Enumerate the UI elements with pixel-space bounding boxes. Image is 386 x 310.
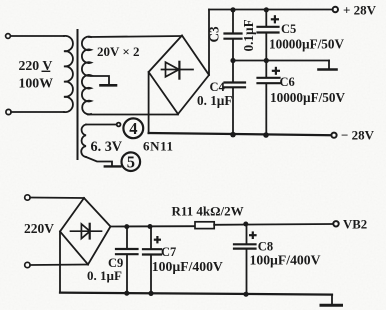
svg-text:C5: C5 (281, 22, 296, 36)
svg-text:100W: 100W (19, 76, 54, 91)
wire bridge right corner to +28V rail (208, 10, 210, 76)
capacitor C8 branch (246, 224, 248, 244)
diode inside top bridge (162, 62, 194, 79)
svg-text:5: 5 (127, 153, 135, 172)
terminal: primary bottom (6, 109, 11, 114)
svg-text:+ 28V: + 28V (343, 3, 377, 18)
plus C8 (249, 231, 257, 239)
ground (middle rail) (328, 61, 330, 69)
svg-text:0. 1µF: 0. 1µF (197, 93, 232, 108)
wire secondary top to bridge (89, 36, 182, 37)
plus C7 (154, 236, 161, 243)
+28V rail (209, 9, 333, 11)
svg-text:− 28V: − 28V (341, 128, 375, 143)
output rail left of R11 (111, 225, 196, 227)
capacitor C6 (265, 61, 267, 78)
svg-text:C3: C3 (207, 26, 222, 43)
terminal -28V (331, 133, 336, 138)
bridge rectifier (bottom) (60, 198, 111, 265)
junction C6/0V rail (264, 58, 269, 63)
svg-text:C4: C4 (210, 80, 226, 94)
middle rail (0V) (233, 60, 329, 62)
svg-text:10000µF/50V: 10000µF/50V (270, 90, 345, 105)
output rail right of R11 (214, 223, 333, 226)
diode inside bottom bridge (71, 224, 102, 239)
transformer core (77, 30, 79, 159)
wire primary top (11, 35, 65, 37)
junction C9 top (124, 224, 129, 229)
svg-text:C8: C8 (258, 240, 273, 254)
wire secondary bottom to bridge (88, 114, 178, 116)
svg-text:20V × 2: 20V × 2 (97, 44, 140, 59)
junction C7 top (148, 224, 153, 229)
junction C4/-28V rail (230, 132, 236, 138)
svg-text:100µF/400V: 100µF/400V (250, 253, 321, 268)
wire 6.3V top lead (86, 124, 117, 126)
svg-text:C6: C6 (280, 75, 295, 89)
wire bridge left corner to -28V rail (148, 72, 150, 133)
transformer secondary winding 20Vx2 (82, 37, 91, 115)
svg-text:0.1µF: 0.1µF (241, 19, 256, 51)
pin circle 5 (122, 152, 141, 171)
capacitor C9 branch (126, 227, 128, 249)
junction C6/-28V rail (263, 132, 269, 138)
terminal dot pin4 (117, 123, 121, 127)
wire bridge left to bottom rail (59, 232, 61, 293)
svg-text:6N11: 6N11 (143, 139, 173, 154)
wire center tap (91, 76, 110, 84)
junction C8 bottom (243, 292, 248, 297)
junction C5/+28V rail (264, 7, 269, 12)
pin circle 4 (123, 118, 143, 138)
terminal VB2 (333, 221, 338, 226)
svg-text:100µF/400V: 100µF/400V (152, 259, 223, 274)
wire AC top (30, 197, 84, 200)
bar at pin 5 (105, 165, 121, 167)
terminal: primary top (6, 34, 11, 39)
wire primary bottom (11, 111, 64, 113)
svg-text:R11 4kΩ/2W: R11 4kΩ/2W (172, 204, 244, 219)
terminal: AC bottom (25, 262, 30, 267)
svg-text:C7: C7 (161, 245, 176, 259)
capacitor C3 branch (232, 10, 234, 34)
bottom rail (bottom circuit) (60, 293, 332, 295)
junction C9 bottom (124, 291, 129, 296)
svg-text:VB2: VB2 (343, 218, 367, 232)
junction C3/+28V rail (230, 7, 235, 12)
bridge rectifier (top) (149, 36, 209, 115)
svg-text:220V: 220V (24, 221, 54, 236)
resistor R11 (195, 222, 214, 229)
6.3V winding (81, 125, 86, 158)
wire AC bottom (30, 264, 88, 267)
junction C7 bottom (148, 291, 153, 296)
terminal: AC top (bottom circuit) (25, 195, 30, 200)
junction C8 top (243, 222, 248, 227)
svg-text:10000µF/50V: 10000µF/50V (269, 37, 344, 52)
terminal +28V (333, 7, 338, 12)
wire 6.3V bottom lead (86, 157, 112, 165)
plus C5 (271, 15, 279, 23)
capacitor C7 branch (150, 226, 152, 249)
-28V rail (149, 133, 332, 135)
svg-text:0. 1µF: 0. 1µF (87, 268, 122, 283)
transformer T1 primary winding (64, 36, 73, 112)
svg-text:4: 4 (129, 119, 137, 138)
ground (center tap) (101, 84, 117, 87)
junction C4/0V rail (230, 58, 235, 63)
ground (bottom right) (331, 295, 333, 305)
plus C6 (272, 67, 280, 75)
svg-text:6. 3V: 6. 3V (91, 139, 123, 155)
capacitor C4 (232, 61, 234, 83)
capacitor C5 branch (265, 10, 267, 27)
